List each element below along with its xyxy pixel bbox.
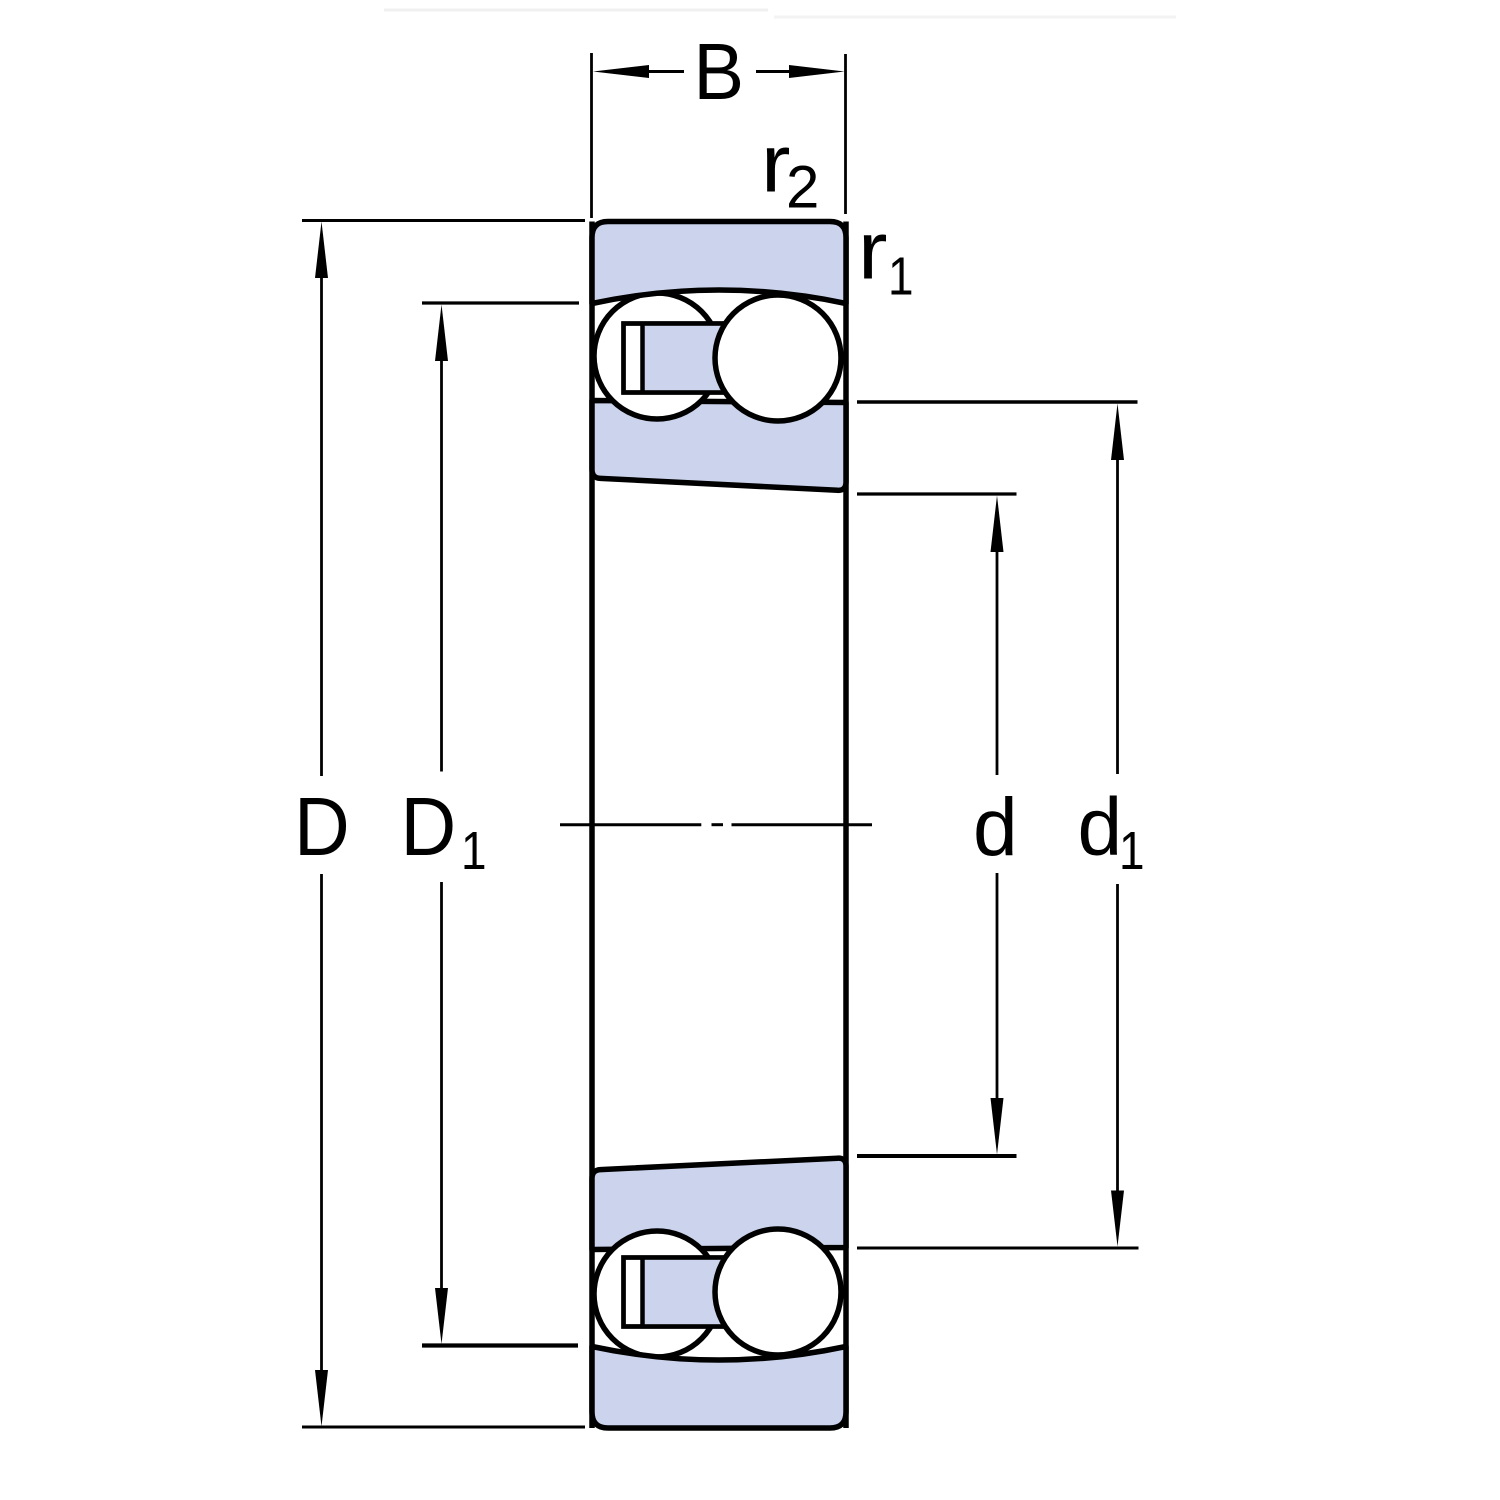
center line (560, 823, 872, 826)
ball upper-left (594, 293, 720, 419)
dimension B extension line left (590, 53, 593, 218)
dimension D extension line top (302, 219, 585, 222)
dimension B extension line right (844, 54, 847, 214)
dimension d arrow top (991, 496, 1004, 553)
ball upper-right (715, 295, 841, 421)
dimension D extension line bottom (302, 1426, 585, 1429)
dimension d1 arrow top (1111, 404, 1124, 461)
dimension d arrow bottom (991, 1098, 1004, 1155)
svg-text:1: 1 (1119, 821, 1145, 881)
dimension d1 line lower (1116, 884, 1119, 1198)
dimension D1 extension line top (422, 301, 579, 304)
outer ring upper section (592, 222, 846, 304)
svg-text:d: d (973, 782, 1018, 873)
dimension B arrow left (593, 65, 649, 78)
dimension D1 arrow bottom (435, 1288, 448, 1344)
svg-text:r: r (858, 205, 887, 296)
svg-text:B: B (693, 26, 744, 116)
dimension d line upper (996, 543, 999, 775)
dimension D1 arrow top (435, 305, 448, 362)
dimension B line left segment (645, 70, 684, 73)
ball lower-left (594, 1231, 720, 1357)
dimension d line lower (996, 873, 999, 1107)
ball lower-right (715, 1229, 841, 1355)
dimension d1 arrow bottom (1111, 1191, 1124, 1247)
dimension D line lower (320, 874, 323, 1378)
dimension d1 extension line bottom (857, 1247, 1139, 1250)
dimension d extension line top (857, 492, 1017, 495)
inner ring lower section (592, 1158, 846, 1249)
dimension D1 line upper (440, 352, 443, 772)
cage upper (blue part) (643, 326, 722, 391)
svg-text:D: D (294, 779, 350, 872)
dimension B line right segment (756, 70, 792, 73)
dimension D arrow top (315, 222, 328, 279)
cage upper outline repaint (624, 324, 725, 393)
cage upper divider (640, 324, 645, 393)
faint artifact line 1 (384, 9, 768, 12)
dimension d extension line bottom (857, 1154, 1017, 1158)
svg-text:2: 2 (786, 154, 819, 221)
cage lower (white part) (624, 1258, 725, 1327)
dimension D1 line lower (440, 882, 443, 1296)
svg-text:D: D (401, 779, 457, 872)
inner ring upper section (592, 401, 846, 491)
dimension B arrow right (789, 65, 845, 78)
dimension D line upper (320, 270, 323, 776)
dimension D1 extension line bottom (422, 1343, 578, 1347)
bearing left silhouette edge (589, 222, 595, 1429)
outer ring lower section (592, 1347, 846, 1429)
cage upper (white part) (624, 324, 725, 393)
bearing right silhouette edge (843, 222, 849, 1429)
cage lower divider (640, 1258, 645, 1327)
svg-text:1: 1 (461, 821, 487, 881)
dimension d1 extension line top (857, 400, 1138, 404)
dimension d1 line upper (1116, 451, 1119, 774)
cage lower (blue part) (643, 1260, 722, 1325)
faint artifact line 2 (774, 16, 1176, 19)
dimension D arrow bottom (315, 1370, 328, 1427)
cage lower outline repaint (624, 1258, 725, 1327)
svg-text:d: d (1078, 782, 1123, 873)
svg-text:1: 1 (888, 246, 914, 306)
